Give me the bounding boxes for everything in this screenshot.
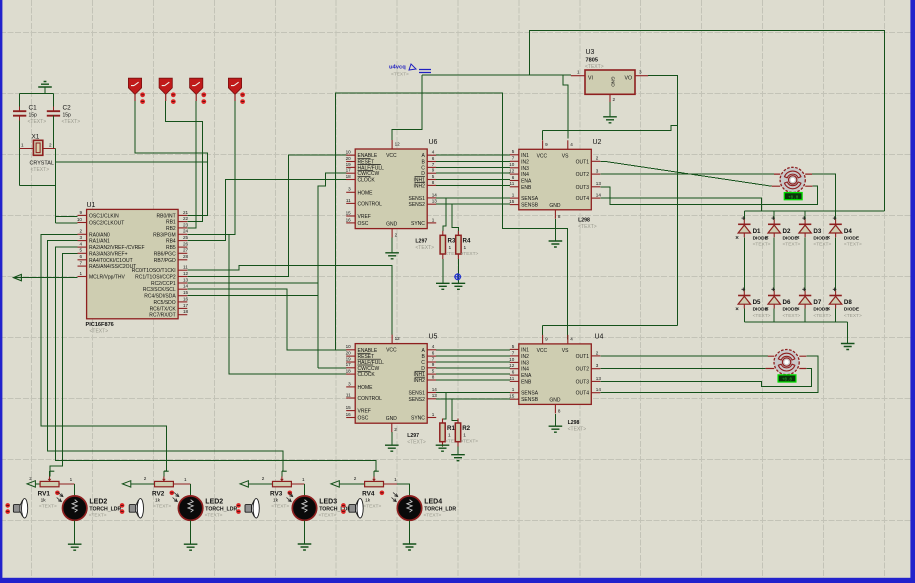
svg-text:<TEXT>: <TEXT> <box>90 328 109 334</box>
svg-text:+0.0: +0.0 <box>782 379 793 383</box>
svg-text:RC5/SDO: RC5/SDO <box>153 300 175 306</box>
diode D4 <box>833 216 837 220</box>
svg-text:5: 5 <box>512 344 515 349</box>
IC U6 L297 <box>355 149 427 229</box>
wire OUT1 stub <box>600 160 604 162</box>
pin 19 HALF/FULL <box>346 361 355 363</box>
svg-text:25: 25 <box>183 235 189 240</box>
svg-text:R2: R2 <box>462 425 470 432</box>
svg-text:17: 17 <box>346 362 352 367</box>
svg-text:<TEXT>: <TEXT> <box>813 313 831 319</box>
pin 7 C <box>427 166 436 168</box>
svg-text:21: 21 <box>183 210 189 215</box>
svg-text:5: 5 <box>432 174 435 179</box>
pin 1 MCLR/Vpp/THV <box>78 276 87 278</box>
svg-text:ENB: ENB <box>521 185 532 191</box>
pin 1 SYNC <box>427 417 436 419</box>
svg-text:RC0/T1OSO/T1CKI: RC0/T1OSO/T1CKI <box>132 268 176 274</box>
svg-text:11: 11 <box>183 265 188 270</box>
svg-text:<TEXT>: <TEXT> <box>415 245 434 251</box>
svg-text:15p: 15p <box>63 113 72 119</box>
logic state button 1 <box>128 78 141 94</box>
svg-text:D: D <box>421 171 425 177</box>
diode D2 <box>771 216 775 220</box>
diode D7 <box>802 288 806 292</box>
pin 4 RA2/AN2/VREF-/CVREF <box>78 246 87 248</box>
svg-text:OSC: OSC <box>358 221 369 227</box>
svg-text:1: 1 <box>448 433 451 439</box>
svg-text:VREF: VREF <box>358 409 371 415</box>
svg-text:13: 13 <box>432 199 438 204</box>
svg-text:10: 10 <box>346 150 352 155</box>
wire U6-U2 phase 2 <box>436 161 510 163</box>
wire button2 to RB1 <box>166 101 203 222</box>
wire pot pin1 lead <box>173 483 190 485</box>
svg-text:TORCH_LDR: TORCH_LDR <box>319 506 351 512</box>
svg-text:CLOCK: CLOCK <box>358 372 376 378</box>
wire VO to U2 VCC <box>543 125 678 130</box>
svg-text:GND: GND <box>386 416 398 422</box>
wire to C2 <box>53 93 55 106</box>
svg-text:RA1/AN1: RA1/AN1 <box>89 239 110 245</box>
wire U5-U4 phase 5 <box>436 373 510 375</box>
LDR LED4 (TORCH_LDR) <box>397 496 421 520</box>
wire pot pin1 lead <box>384 483 398 485</box>
svg-text:6: 6 <box>432 351 435 356</box>
wire OUT1 diagonal to motor <box>604 161 771 186</box>
wire to C1 <box>19 93 21 106</box>
svg-text:IN1: IN1 <box>521 153 529 159</box>
wire top rail to diode bus <box>530 31 885 211</box>
svg-text:<TEXT>: <TEXT> <box>153 504 171 510</box>
pin 11 RC0/T1OSO/T1CKI <box>178 269 187 271</box>
svg-text:1: 1 <box>79 271 82 276</box>
pin 7 IN2 <box>510 160 519 162</box>
svg-text:<TEXT>: <TEXT> <box>585 64 604 70</box>
IC U2 L298 <box>519 149 592 210</box>
svg-text:16: 16 <box>346 412 352 417</box>
svg-text:OSC1/CLKIN: OSC1/CLKIN <box>89 213 119 219</box>
svg-text:23: 23 <box>183 222 189 227</box>
svg-text:13: 13 <box>596 181 602 186</box>
wire crystal to OSC pins <box>55 149 57 224</box>
svg-text:9: 9 <box>545 142 548 147</box>
diode D3 <box>802 216 806 220</box>
wire SENS1 to SENSA <box>436 197 510 199</box>
svg-text:15: 15 <box>346 210 352 215</box>
svg-text:C1: C1 <box>29 105 38 112</box>
svg-text:1: 1 <box>463 433 466 439</box>
svg-text:3: 3 <box>348 381 351 386</box>
pin 11 CONTROL <box>346 397 355 399</box>
svg-text:17: 17 <box>183 303 189 308</box>
wire to U3 VI <box>563 74 571 76</box>
pin 9 OSC1/CLKIN <box>78 214 87 216</box>
svg-text:13: 13 <box>183 277 189 282</box>
svg-text:RA5/AN4/SS/C2OUT: RA5/AN4/SS/C2OUT <box>89 264 136 270</box>
wire to OSC2 <box>56 222 78 224</box>
wire D2 to D6 <box>773 237 775 290</box>
pin 15 VREF <box>346 215 355 217</box>
svg-text:<TEXT>: <TEXT> <box>391 72 409 78</box>
svg-text:<TEXT>: <TEXT> <box>783 313 801 319</box>
svg-text:19: 19 <box>346 162 352 167</box>
pin 20 RESET <box>346 355 355 357</box>
svg-text:3: 3 <box>596 363 599 368</box>
pin 12 IN4 <box>510 368 519 370</box>
svg-text:RC7/RX/DT: RC7/RX/DT <box>149 313 175 319</box>
svg-text:GND: GND <box>549 203 561 209</box>
svg-text:IN4: IN4 <box>521 172 529 178</box>
svg-text:INH2: INH2 <box>413 183 425 189</box>
svg-text:2: 2 <box>613 97 616 102</box>
wire U4 GND <box>554 414 556 426</box>
ground (U4) <box>549 426 563 432</box>
svg-text:D8: D8 <box>844 299 852 306</box>
svg-text:PIC16F876: PIC16F876 <box>86 322 114 328</box>
wire U5 GND <box>391 432 393 445</box>
svg-text:<TEXT>: <TEXT> <box>783 242 801 248</box>
svg-text:OUT4: OUT4 <box>576 391 590 397</box>
display (M2 step counter) <box>778 375 796 382</box>
wire OUT2 to motor2 <box>600 368 765 370</box>
diode D8 <box>833 288 837 292</box>
svg-text:RA2/AN2/VREF-/CVREF: RA2/AN2/VREF-/CVREF <box>89 245 145 251</box>
svg-text:<TEXT>: <TEXT> <box>28 119 47 125</box>
wire button1 to RB0 <box>135 101 208 215</box>
svg-text:SENS1: SENS1 <box>408 391 425 397</box>
pin 2 OUT1 <box>591 160 600 162</box>
wire D1 to D5 <box>743 237 745 290</box>
svg-text:1k: 1k <box>41 497 47 503</box>
wire RA2 to RV4 wiper <box>56 247 376 471</box>
wire pot to LDR <box>397 484 410 496</box>
wire C2 to crystal pin2 <box>53 116 55 149</box>
svg-text:1: 1 <box>512 387 515 392</box>
svg-text:L298: L298 <box>578 218 590 224</box>
svg-text:2: 2 <box>394 427 397 432</box>
svg-text:X1: X1 <box>32 134 40 141</box>
svg-text:14: 14 <box>432 192 438 197</box>
svg-text:RC1/T1OSI/CCP2: RC1/T1OSI/CCP2 <box>135 275 176 281</box>
wire SENS2 tap to R4 <box>452 204 458 231</box>
svg-text:2: 2 <box>395 233 398 238</box>
pin 7 IN2 <box>510 355 519 357</box>
svg-text:1: 1 <box>21 143 24 148</box>
pin 25 RB4 <box>178 240 187 242</box>
svg-text:10: 10 <box>509 357 515 362</box>
ground (R2) <box>451 455 465 461</box>
pin 21 RB0/INT <box>178 214 187 216</box>
svg-text:<TEXT>: <TEXT> <box>460 439 478 445</box>
svg-text:2: 2 <box>596 350 599 355</box>
svg-text:CW/CCW: CW/CCW <box>358 171 380 177</box>
svg-text:RB7/PGD: RB7/PGD <box>154 258 176 264</box>
pin 5 RA3/AN3/VREF+ <box>78 252 87 254</box>
wire LDR to ground <box>74 520 76 544</box>
svg-text:6: 6 <box>512 175 515 180</box>
svg-text:u4vcq: u4vcq <box>389 65 406 71</box>
svg-text:ENA: ENA <box>521 179 532 185</box>
wire SENS1 tap to R3 <box>443 198 446 231</box>
crystal X1 <box>33 140 42 155</box>
pin 2 GND <box>391 423 393 432</box>
pin 6 RA4/T0CKI/C1OUT <box>78 259 87 261</box>
pin 15 VREF <box>346 410 355 412</box>
svg-text:SENSB: SENSB <box>521 397 539 403</box>
wire LDR to ground <box>304 520 306 544</box>
wire bus to D3 <box>804 211 806 220</box>
svg-text:8: 8 <box>558 408 561 413</box>
wire U6-U2 phase 1 <box>436 154 510 156</box>
pin 15 SENSB <box>510 204 519 206</box>
svg-text:D5: D5 <box>753 299 761 306</box>
pin 14 SENS1 <box>427 197 436 199</box>
LDR LED2 (TORCH_LDR) <box>62 496 86 520</box>
pin 15 SENSB <box>510 398 519 400</box>
svg-text:MCLR/Vpp/THV: MCLR/Vpp/THV <box>89 275 126 281</box>
node input terminal (RV1) <box>27 481 35 487</box>
svg-text:<TEXT>: <TEXT> <box>424 512 442 518</box>
svg-text:IN2: IN2 <box>521 159 529 165</box>
svg-text:1: 1 <box>302 477 305 482</box>
svg-text:15p: 15p <box>29 113 38 119</box>
svg-text:SYNC: SYNC <box>411 221 425 227</box>
pin 14 OUT4 <box>591 197 600 199</box>
svg-text:LED2: LED2 <box>89 498 107 505</box>
wire VO rail to U4 VCC <box>543 325 678 327</box>
wire RA1 to RV3 wiper <box>48 241 284 472</box>
svg-text:RV3: RV3 <box>270 490 283 497</box>
svg-text:<TEXT>: <TEXT> <box>461 251 479 257</box>
pin 1 SYNC <box>427 222 436 224</box>
svg-text:VCC: VCC <box>386 153 397 159</box>
svg-text:RV2: RV2 <box>152 490 165 497</box>
svg-text:OUT2: OUT2 <box>576 172 590 178</box>
svg-text:IN3: IN3 <box>521 166 529 172</box>
pin 10 IN3 <box>510 167 519 169</box>
LDR LED3 (TORCH_LDR) <box>292 496 316 520</box>
wire C2 top lead <box>53 107 55 112</box>
wire U3 GND <box>609 102 611 117</box>
wire wiper drop <box>163 471 165 476</box>
svg-text:14: 14 <box>183 284 189 289</box>
svg-text:15: 15 <box>183 290 189 295</box>
pin 6 B <box>427 355 436 357</box>
wire u4vcq to U2 VS <box>422 75 568 139</box>
wire SENS1 to SENSA (bottom) <box>436 392 510 394</box>
svg-text:IN3: IN3 <box>521 360 529 366</box>
wire U6 GND <box>391 238 393 253</box>
svg-text:INH2: INH2 <box>413 378 425 384</box>
wire pot pin1 lead <box>291 483 304 485</box>
node input terminal (RV3) <box>240 481 248 487</box>
pin 7 RA5/AN4/SS/C2OUT <box>78 265 87 267</box>
border frame <box>0 0 2 583</box>
svg-text:SENS1: SENS1 <box>408 196 425 202</box>
motor M2 (stepper) <box>774 350 799 375</box>
svg-text:12: 12 <box>395 142 401 147</box>
svg-text:5: 5 <box>432 369 435 374</box>
ground (top of C1/C2 net) <box>38 82 52 88</box>
wire D5 to bottom bus <box>743 309 745 322</box>
svg-text:12: 12 <box>395 336 401 341</box>
svg-text:6: 6 <box>432 156 435 161</box>
wire bus to ground <box>847 322 849 344</box>
svg-text:RB4: RB4 <box>166 239 176 245</box>
ground (R3) <box>436 283 450 289</box>
svg-text:D: D <box>421 366 425 372</box>
svg-text:1: 1 <box>70 477 73 482</box>
svg-text:2: 2 <box>354 476 357 481</box>
wire U2 GND <box>554 219 556 241</box>
pin 13 SENS2 <box>427 398 436 400</box>
svg-text:6: 6 <box>79 254 82 259</box>
wire terminal to RV2 <box>131 483 155 485</box>
wire pot to LDR <box>304 484 306 496</box>
svg-text:IN4: IN4 <box>521 367 529 373</box>
svg-text:<TEXT>: <TEXT> <box>753 313 771 319</box>
pin 4 VS <box>567 140 569 149</box>
svg-text:<TEXT>: <TEXT> <box>205 512 223 518</box>
svg-text:<TEXT>: <TEXT> <box>62 119 81 125</box>
svg-text:RB3/PGM: RB3/PGM <box>153 232 176 238</box>
pin 12 VCC <box>391 335 393 344</box>
logic state button 3 <box>190 78 203 94</box>
svg-text:16: 16 <box>183 296 189 301</box>
svg-text:SENSB: SENSB <box>521 203 539 209</box>
wire terminal to RV4 <box>339 483 364 485</box>
pin 10 ENABLE <box>346 349 355 351</box>
svg-text:VCC: VCC <box>537 153 548 159</box>
wire diode bus (top) <box>744 210 884 212</box>
wire D3 to D7 <box>804 237 806 290</box>
wire U5-U4 phase 6 <box>436 379 510 381</box>
svg-text:D3: D3 <box>813 228 821 235</box>
wire OUT4 to motor2 <box>600 356 818 392</box>
wire R4 to ground <box>457 259 459 283</box>
svg-text:RB5: RB5 <box>166 245 176 251</box>
svg-text:OUT3: OUT3 <box>576 185 590 191</box>
pin 23 RB2 <box>178 227 187 229</box>
wire SENS2 tap to R2 <box>452 399 458 421</box>
svg-text:27: 27 <box>183 248 189 253</box>
svg-text:18: 18 <box>346 369 352 374</box>
svg-text:CRYSTAL: CRYSTAL <box>30 161 54 167</box>
svg-text:26: 26 <box>183 242 189 247</box>
svg-text:RA0/AN0: RA0/AN0 <box>89 232 110 238</box>
ground (LED2) <box>184 544 198 550</box>
wire SENS1 tap to R1 <box>443 393 447 420</box>
motor terminals M2 <box>766 356 807 368</box>
svg-text:1: 1 <box>512 193 515 198</box>
wire LDR to ground <box>409 520 411 544</box>
svg-text:12: 12 <box>509 169 515 174</box>
svg-text:18: 18 <box>183 309 189 314</box>
svg-text:10: 10 <box>77 217 83 222</box>
wire crystal pin1 lead <box>20 148 34 150</box>
wire U6-U2 phase 5 <box>436 179 510 181</box>
pin 8 INH2 <box>427 184 436 186</box>
svg-text:13: 13 <box>432 393 438 398</box>
svg-text:7: 7 <box>512 156 515 161</box>
wire C1 bottom lead <box>19 116 21 121</box>
svg-text:16: 16 <box>346 217 352 222</box>
svg-text:<TEXT>: <TEXT> <box>39 504 57 510</box>
svg-text:22: 22 <box>183 216 189 221</box>
svg-text:<TEXT>: <TEXT> <box>271 504 289 510</box>
svg-text:5: 5 <box>79 248 82 253</box>
wire D8 to bottom bus <box>835 309 837 322</box>
svg-text:3: 3 <box>639 70 642 75</box>
pin 11 ENB <box>510 380 519 382</box>
pin 13 RC2/CCP1 <box>178 282 187 284</box>
svg-text:1: 1 <box>432 412 435 417</box>
svg-text:OUT1: OUT1 <box>576 159 590 165</box>
pin 18 CLOCK <box>346 179 355 181</box>
pin 16 RC5/SDO <box>178 301 187 303</box>
LDR LED2 (TORCH_LDR) <box>178 496 202 520</box>
wire SENS2 to SENSB (bottom) <box>436 398 510 400</box>
svg-text:RV1: RV1 <box>38 490 51 497</box>
pin 9 VCC <box>542 140 544 149</box>
svg-text:U5: U5 <box>429 334 438 341</box>
wire to U6 CW/CCW <box>318 173 346 368</box>
svg-text:20: 20 <box>346 351 352 356</box>
svg-text:OUT3: OUT3 <box>576 379 590 385</box>
svg-text:18: 18 <box>346 174 352 179</box>
pin 15 RC4/SDI/SDA <box>178 295 187 297</box>
svg-text:24: 24 <box>183 229 189 234</box>
svg-text:RA3/AN3/VREF+: RA3/AN3/VREF+ <box>89 251 128 257</box>
svg-text:VCC: VCC <box>537 348 548 354</box>
svg-text:19: 19 <box>346 356 352 361</box>
pin 10 IN3 <box>510 361 519 363</box>
svg-text:RB2: RB2 <box>166 226 176 232</box>
wire bus to D2 <box>773 211 775 220</box>
IC U4 L298 <box>519 344 592 405</box>
svg-text:15: 15 <box>509 394 515 399</box>
pin 3 RA1/AN1 <box>78 240 87 242</box>
svg-text:LED4: LED4 <box>424 498 442 505</box>
diode D6 <box>771 288 775 292</box>
pin 5 IN1 <box>510 348 519 350</box>
svg-text:7: 7 <box>432 162 435 167</box>
svg-text:TORCH_LDR: TORCH_LDR <box>205 506 237 512</box>
svg-text:TORCH_LDR: TORCH_LDR <box>89 506 121 512</box>
pin 3 HOME <box>346 386 355 388</box>
svg-text:R3: R3 <box>448 237 456 244</box>
pin 12 VCC <box>391 140 393 149</box>
svg-text:1k: 1k <box>365 497 371 503</box>
svg-text:VCC: VCC <box>386 348 397 354</box>
svg-text:11: 11 <box>510 181 515 186</box>
wire RC3 to U5 ENABLE <box>187 289 346 350</box>
svg-text:ENABLE: ENABLE <box>358 348 378 354</box>
pin 20 RESET <box>346 161 355 163</box>
pin 28 RB7/PGD <box>178 259 187 261</box>
svg-text:L298: L298 <box>568 420 580 426</box>
wire OUT1 to motor2 <box>600 355 768 357</box>
svg-text:D6: D6 <box>783 299 791 306</box>
svg-text:7805: 7805 <box>586 58 598 64</box>
capacitor C1 <box>13 111 26 116</box>
svg-text:<TEXT>: <TEXT> <box>363 504 381 510</box>
wire U3 VO rail <box>648 76 677 326</box>
svg-text:U4: U4 <box>595 334 604 341</box>
wire to U5 CW/CCW <box>318 367 346 369</box>
pin 17 CW/CCW <box>346 172 355 174</box>
